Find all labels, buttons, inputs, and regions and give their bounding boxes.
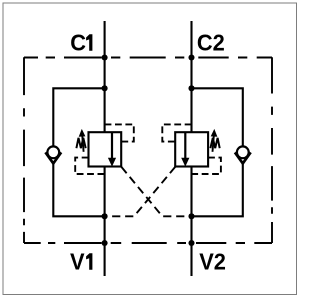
- junction node C2/check branch: [188, 85, 194, 91]
- wire: C2 main line upper segment: [190, 21, 192, 132]
- junction dot V1/boundary: [102, 240, 108, 246]
- valve assembly boundary right edge (long-short dashed): [271, 57, 273, 243]
- flow arrow inside right valve: [184, 133, 186, 159]
- junction node C1/check branch: [102, 85, 108, 91]
- wire: V2 main line lower segment: [190, 167, 192, 277]
- svg-text:V2: V2: [199, 248, 226, 275]
- pilot line: cross pilot from left valve to V2 (dashed diagonal): [121, 167, 191, 216]
- pilot line: left valve drain to V1 (dashed loop): [75, 158, 104, 174]
- check valve CV1 seat: [45, 152, 61, 163]
- check valve CV1 poppet: [47, 146, 59, 158]
- svg-text:V: V: [70, 248, 85, 275]
- wire: left check-valve branch top: [53, 88, 104, 146]
- valve assembly boundary left edge (long-short dashed): [23, 57, 25, 243]
- wire: C1 main line upper segment: [104, 21, 106, 132]
- wire: right check-valve branch bottom: [192, 163, 243, 217]
- valve assembly boundary bottom edge (long-short dashed): [24, 242, 272, 244]
- svg-text:C2: C2: [197, 29, 225, 56]
- svg-text:C: C: [70, 29, 86, 56]
- wire: left check-valve branch bottom: [53, 163, 104, 217]
- check valve CV2 seat: [235, 152, 251, 163]
- relief valve body right (counterbalance element): [175, 132, 208, 166]
- flow arrow inside left valve: [111, 133, 113, 159]
- junction dot C2/boundary: [188, 54, 194, 60]
- junction dot V2/boundary: [188, 240, 194, 246]
- adjustable spring right: [210, 138, 219, 148]
- junction node V2/check branch: [188, 213, 194, 219]
- valve assembly boundary top edge (long-short dashed): [24, 57, 272, 59]
- adjustable spring left: [76, 138, 85, 148]
- junction node V1/check branch: [102, 213, 108, 219]
- relief valve body left (counterbalance element): [89, 132, 122, 166]
- wire: V1 main line lower segment: [104, 167, 106, 277]
- check valve CV2 poppet: [237, 146, 249, 158]
- pilot line: cross pilot from right valve to V1 (dashed diagonal): [105, 167, 176, 216]
- pilot line: right valve drain to V2 (dashed loop): [192, 158, 221, 174]
- pilot line: right valve sense from C2 (dashed loop): [162, 124, 191, 141]
- junction dot C1/boundary: [102, 54, 108, 60]
- wire: right check-valve branch top: [192, 88, 243, 146]
- pilot line: left valve sense from C1 (dashed loop): [105, 124, 134, 141]
